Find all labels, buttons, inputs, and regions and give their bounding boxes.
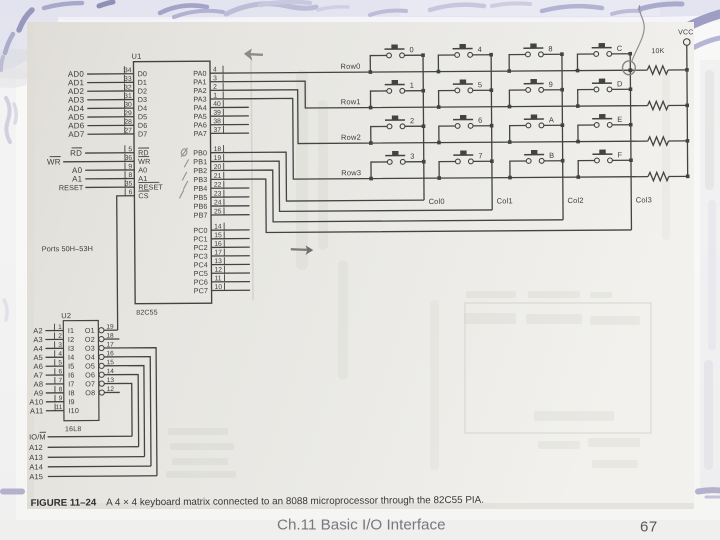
svg-text:2: 2: [410, 116, 414, 125]
svg-text:A9: A9: [34, 389, 44, 398]
signal A15 wire: [29, 471, 157, 481]
svg-text:I10: I10: [68, 406, 79, 415]
push-button key D (row1 col3): [576, 78, 633, 108]
pin D2 (32) / signal AD2: [68, 83, 147, 96]
svg-text:I9: I9: [68, 397, 74, 406]
pin PC5 (12): [194, 266, 250, 278]
pin PA0 (4): [193, 66, 223, 78]
pin I9 (9) / signal A10: [29, 395, 74, 407]
svg-text:A12: A12: [29, 443, 43, 452]
svg-text:O1: O1: [85, 326, 95, 335]
svg-text:PB0: PB0: [193, 148, 207, 157]
arrow right (annotation): [291, 245, 314, 255]
IC U1 82C55: [131, 51, 211, 317]
svg-text:A5: A5: [33, 353, 43, 362]
svg-text:I3: I3: [68, 344, 74, 353]
pin PA6 (38): [194, 117, 249, 129]
pin PC6 (11): [194, 274, 250, 286]
VCC supply terminal: [678, 29, 694, 176]
wire PA2 to Row2: [210, 87, 648, 144]
pin PC3 (17): [193, 248, 249, 260]
push-button key 6 (row2 col1): [437, 115, 494, 145]
push-button key C (row0 col3): [576, 43, 633, 73]
svg-text:4: 4: [58, 351, 62, 358]
pin PA5 (39): [193, 108, 248, 120]
svg-text:33: 33: [124, 76, 132, 83]
pin D0 (34) / signal AD0: [68, 66, 147, 79]
junction VCC rail row1: [685, 104, 689, 108]
svg-text:1: 1: [58, 324, 62, 331]
wire PB3 to Col3: [211, 176, 632, 232]
svg-text:I6: I6: [68, 371, 74, 380]
svg-text:A3: A3: [33, 335, 43, 344]
push-button key 2 (row2 col0): [369, 115, 426, 145]
pin I3 (3) / signal A4: [33, 341, 74, 353]
pin D6 (28) / signal AD6: [68, 118, 147, 131]
svg-text:A: A: [549, 115, 554, 124]
signal IO/M wire: [29, 432, 132, 442]
column line Col3: [630, 54, 631, 230]
svg-text:O2: O2: [85, 335, 95, 344]
svg-text:Row3: Row3: [341, 168, 361, 177]
svg-text:5: 5: [58, 360, 62, 367]
svg-text:D7: D7: [138, 129, 147, 138]
svg-text:Col1: Col1: [497, 196, 513, 205]
svg-text:WR: WR: [47, 157, 61, 166]
column line Col2: [562, 54, 563, 220]
svg-text:O3: O3: [85, 344, 95, 353]
pin PB2 (20): [193, 163, 223, 175]
pin D5 (29) / signal AD5: [68, 109, 147, 122]
resistor pull-up row3: [648, 172, 688, 181]
pin O4 (16): [85, 350, 151, 466]
svg-text:27: 27: [124, 127, 132, 134]
push-button key 7 (row3 col1): [437, 150, 494, 180]
svg-text:10K: 10K: [651, 48, 664, 55]
svg-text:3: 3: [58, 342, 62, 349]
svg-text:0: 0: [409, 45, 413, 54]
svg-text:PB5: PB5: [193, 193, 207, 202]
pin O8 (12): [85, 386, 120, 397]
svg-text:A14: A14: [29, 462, 43, 471]
svg-text:29: 29: [124, 110, 132, 117]
svg-text:35: 35: [125, 181, 133, 188]
pin I4 (4) / signal A5: [33, 350, 74, 362]
svg-text:I4: I4: [68, 353, 74, 362]
pin I1 (1) / signal A2: [33, 323, 74, 335]
svg-text:A13: A13: [29, 453, 43, 462]
pin PC7 (10): [194, 283, 250, 295]
pin PB1 (19): [193, 154, 223, 166]
signal A13 wire: [29, 452, 144, 462]
svg-text:IO/M: IO/M: [29, 432, 46, 441]
svg-text:11: 11: [55, 404, 62, 411]
wire PB2 to Col2: [211, 168, 563, 222]
svg-text:7: 7: [478, 151, 482, 160]
svg-text:RESET: RESET: [59, 183, 84, 192]
svg-text:O8: O8: [85, 388, 95, 397]
junction VCC rail row2: [686, 139, 690, 143]
svg-text:PB6: PB6: [194, 202, 208, 211]
pen stroke annotation: [631, 5, 644, 62]
push-button key 4 (row0 col1): [436, 44, 493, 74]
svg-text:A7: A7: [34, 371, 44, 380]
svg-text:RD: RD: [70, 149, 82, 158]
svg-text:6: 6: [58, 369, 62, 376]
svg-text:B: B: [549, 151, 554, 160]
wire PA3 to Row3: [210, 96, 648, 180]
pin I2 (2) / signal A3: [33, 332, 74, 344]
svg-text:67: 67: [640, 519, 658, 536]
svg-text:C: C: [617, 44, 623, 53]
pin PB5 (23): [193, 189, 249, 201]
pin D7 (27) / signal AD7: [68, 126, 147, 139]
column line Col0: [423, 55, 424, 200]
push-button key A (row2 col2): [508, 114, 565, 144]
push-button key 5 (row1 col1): [437, 79, 494, 109]
erroneous junction dot at Row0/Col3 (circled in pen): [628, 68, 632, 72]
pin I6 (6) / signal A7: [34, 368, 75, 380]
pin PA7 (37): [194, 126, 249, 138]
svg-text:PA7: PA7: [194, 129, 207, 138]
svg-text:A2: A2: [33, 326, 43, 335]
svg-text:PB1: PB1: [193, 157, 207, 166]
pin A1 (8): [72, 171, 147, 184]
push-button key 1 (row1 col0): [369, 80, 426, 110]
svg-text:16L8: 16L8: [65, 426, 81, 433]
svg-text:5: 5: [128, 146, 132, 153]
svg-text:CS: CS: [138, 191, 148, 200]
svg-text:PB4: PB4: [193, 184, 207, 193]
svg-text:O5: O5: [85, 361, 95, 370]
svg-text:8: 8: [548, 44, 552, 53]
svg-text:Row1: Row1: [341, 97, 361, 106]
pin D4 (30) / signal AD4: [68, 101, 147, 114]
svg-text:F: F: [617, 150, 622, 159]
pin D1 (33) / signal AD1: [68, 75, 147, 88]
svg-text:PB7: PB7: [194, 211, 208, 220]
pin PC2 (16): [193, 240, 249, 252]
svg-text:8: 8: [59, 386, 63, 393]
svg-text:O4: O4: [85, 353, 95, 362]
svg-text:36: 36: [125, 155, 133, 162]
push-button key E (row2 col3): [576, 114, 633, 144]
svg-text:PC7: PC7: [194, 286, 208, 295]
svg-text:A11: A11: [30, 406, 43, 415]
signal A14 wire: [29, 462, 151, 472]
push-button key 3 (row3 col0): [369, 151, 426, 181]
svg-text:2: 2: [58, 333, 62, 340]
pin PB7 (25): [194, 207, 250, 219]
svg-text:Row2: Row2: [341, 133, 361, 142]
arrow left (annotation): [244, 48, 263, 60]
svg-text:I8: I8: [68, 388, 74, 397]
pin RD (5): [70, 145, 149, 158]
svg-text:A10: A10: [29, 397, 43, 406]
resistor pull-up row2: [648, 137, 688, 146]
svg-text:Ch.11 Basic I/O Interface: Ch.11 Basic I/O Interface: [277, 517, 446, 534]
push-button key 0 (row0 col0): [368, 44, 425, 74]
push-button key F (row3 col3): [576, 149, 633, 179]
pin PB3 (21): [193, 172, 223, 184]
svg-text:82C55: 82C55: [136, 310, 158, 317]
svg-text:8: 8: [128, 172, 132, 179]
svg-text:7: 7: [59, 377, 63, 384]
wire PA1 to Row1: [210, 79, 647, 109]
svg-text:PB2: PB2: [193, 166, 207, 175]
pin RESET (35): [59, 179, 164, 192]
svg-text:A15: A15: [29, 472, 43, 481]
svg-text:PB3: PB3: [193, 175, 207, 184]
pin PA1 (3): [193, 74, 223, 86]
pin O5 (15): [85, 359, 144, 457]
push-button key 8 (row0 col2): [507, 43, 564, 73]
pin PB6 (24): [194, 198, 250, 210]
pin I7 (7) / signal A8: [34, 377, 75, 389]
pin WR (36): [47, 154, 151, 167]
svg-text:6: 6: [478, 116, 482, 125]
pin I10 (11) / signal A11: [30, 404, 79, 416]
push-button key B (row3 col2): [508, 150, 565, 180]
svg-text:I5: I5: [68, 362, 74, 371]
svg-text:VCC: VCC: [678, 29, 693, 36]
svg-text:9: 9: [128, 163, 132, 170]
pin O2 (18): [85, 333, 120, 344]
pin PA2 (2): [193, 83, 223, 95]
svg-text:FIGURE 11–24: FIGURE 11–24: [31, 497, 97, 508]
resistor pull-up row0: [647, 66, 687, 75]
svg-text:28: 28: [124, 119, 132, 126]
pin I8 (8) / signal A9: [34, 386, 75, 398]
pin PA4 (40): [193, 100, 248, 112]
svg-text:U2: U2: [61, 311, 71, 320]
svg-text:A8: A8: [34, 380, 44, 389]
svg-text:A4: A4: [33, 344, 43, 353]
pin D3 (31) / signal AD3: [68, 92, 147, 105]
wire PB0 to Col0: [211, 151, 424, 201]
pin O3 (17): [85, 341, 157, 476]
svg-text:I2: I2: [68, 335, 74, 344]
svg-text:34: 34: [124, 67, 132, 74]
pin O6 (14): [85, 368, 139, 447]
svg-text:5: 5: [478, 80, 482, 89]
svg-text:Col2: Col2: [567, 196, 583, 205]
pin O1 (19): [85, 324, 118, 335]
junction VCC rail row3: [686, 175, 690, 179]
column line Col1: [491, 55, 492, 210]
signal A12 wire: [29, 442, 139, 452]
wire PA0 to Row0: [210, 70, 647, 73]
pin PC4 (13): [194, 257, 250, 269]
pin PC1 (15): [193, 231, 249, 243]
svg-text:9: 9: [59, 395, 63, 402]
pen annotation marks: [179, 148, 189, 199]
svg-text:4: 4: [478, 45, 482, 54]
pin O7 (13): [85, 377, 132, 437]
pin PB4 (22): [193, 181, 249, 193]
svg-text:Col0: Col0: [429, 197, 445, 206]
push-button key 9 (row1 col2): [508, 79, 565, 109]
svg-text:31: 31: [124, 93, 132, 100]
svg-text:3: 3: [410, 152, 414, 161]
svg-text:32: 32: [124, 84, 132, 91]
svg-text:O7: O7: [85, 379, 95, 388]
svg-text:30: 30: [124, 102, 132, 109]
svg-text:I7: I7: [68, 379, 74, 388]
svg-text:I1: I1: [68, 326, 74, 335]
pin CS (6) and wire to PAL output O1: [117, 188, 151, 330]
pin PA3 (1): [193, 91, 223, 103]
resistor pull-up row1: [647, 101, 687, 110]
svg-text:O6: O6: [85, 370, 95, 379]
pin PC0 (14): [193, 222, 249, 234]
pin A0 (9): [72, 162, 147, 175]
svg-text:AD7: AD7: [68, 130, 85, 139]
pin PB0 (18): [193, 145, 223, 157]
junction VCC rail row0: [685, 68, 689, 72]
svg-text:Col3: Col3: [636, 195, 652, 204]
pin I5 (5) / signal A6: [33, 359, 74, 371]
wire PB1 to Col1: [211, 160, 493, 212]
svg-text:Ports 50H–53H: Ports 50H–53H: [42, 244, 93, 253]
svg-text:E: E: [617, 115, 622, 124]
svg-text:1: 1: [410, 81, 414, 90]
svg-text:D: D: [617, 79, 623, 88]
svg-text:A6: A6: [33, 362, 43, 371]
pen circle annotation: [622, 61, 635, 75]
svg-text:9: 9: [549, 80, 553, 89]
IC U2 16L8 PAL: [61, 311, 99, 433]
svg-text:Row0: Row0: [340, 62, 360, 71]
svg-text:U1: U1: [131, 52, 141, 61]
